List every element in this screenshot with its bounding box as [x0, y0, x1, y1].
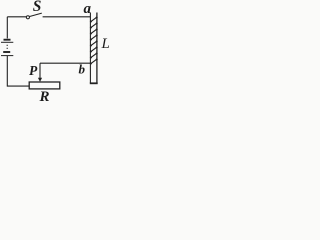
svg-text:L: L	[101, 36, 110, 52]
inductor L winding turn 5	[91, 41, 97, 46]
winding junction dots	[90, 16, 98, 64]
battery cell 2 negative plate (short thick)	[3, 51, 10, 53]
wire left vertical (battery bottom lead)	[6, 56, 8, 87]
battery cell 2 positive plate (long thin)	[1, 55, 13, 57]
svg-text:a: a	[84, 1, 92, 17]
wiper P arrow shaft	[39, 63, 41, 79]
switch S pivot circle	[26, 16, 29, 19]
wire left vertical (battery top lead)	[6, 17, 8, 39]
inductor L right rail	[96, 13, 98, 84]
inductor L left rail	[89, 13, 91, 84]
inductor L winding turn 2	[91, 23, 97, 28]
wiper P arrowhead	[38, 78, 42, 82]
battery cell 1 positive plate (long thin)	[1, 41, 13, 43]
inductor L bottom edge	[90, 82, 98, 84]
inductor L winding turn 3	[91, 29, 97, 34]
rheostat R body	[29, 82, 60, 89]
wire top-left (battery + to switch)	[7, 16, 26, 18]
svg-text:b: b	[79, 62, 86, 77]
wire top-right (switch to node a)	[43, 16, 91, 18]
svg-text:S: S	[33, 0, 42, 15]
wire bottom (battery to rheostat R left terminal)	[7, 85, 29, 87]
svg-text:R: R	[39, 89, 50, 102]
inductor L winding turn 6	[91, 47, 97, 52]
svg-text:P: P	[29, 63, 38, 78]
inductor L winding turn 1	[91, 17, 97, 22]
inductor L winding turn 7	[91, 53, 97, 58]
switch S blade (open)	[30, 13, 42, 16]
inductor L winding turn 8	[91, 59, 97, 64]
wire node b to wiper P	[40, 62, 90, 64]
inductor L winding turn 4	[91, 35, 97, 40]
battery cell 1 negative plate (short thick)	[4, 39, 11, 41]
battery dotted continuation	[6, 45, 8, 49]
